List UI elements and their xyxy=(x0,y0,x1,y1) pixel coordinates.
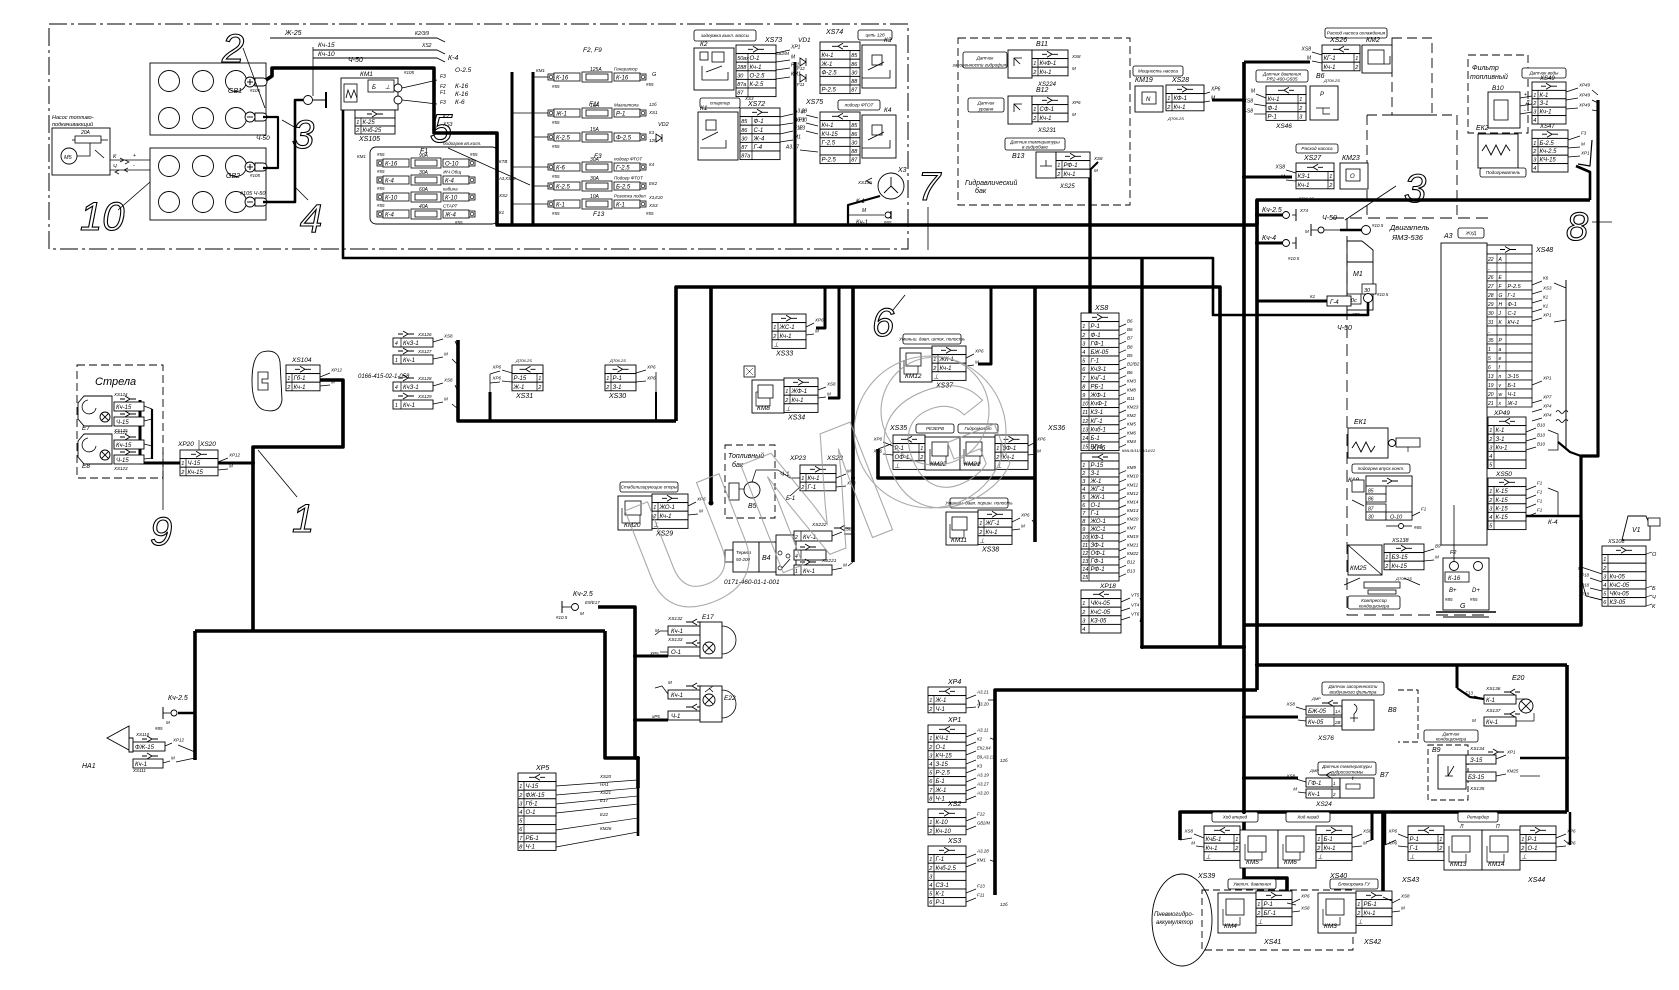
svg-text:1: 1 xyxy=(1355,56,1358,62)
svg-text:2: 2 xyxy=(928,866,932,872)
svg-text:ЖГ-1: ЖГ-1 xyxy=(1090,487,1105,493)
svg-text:ХР6: ХР6 xyxy=(491,365,501,370)
svg-text:30: 30 xyxy=(851,140,858,146)
svg-text:7: 7 xyxy=(918,165,942,209)
relay KM11 XS38 xyxy=(950,498,1008,508)
svg-text:А3.20: А3.20 xyxy=(976,791,989,796)
svg-text:О-2.5: О-2.5 xyxy=(750,73,766,79)
svg-text:Ч-15: Ч-15 xyxy=(526,784,539,790)
svg-text:СФ-1: СФ-1 xyxy=(1040,107,1054,113)
svg-text:М: М xyxy=(171,756,175,761)
svg-text:Ч: Ч xyxy=(1652,595,1656,601)
svg-text:Б-2.5: Б-2.5 xyxy=(1540,141,1555,147)
svg-text:288: 288 xyxy=(736,65,747,71)
svg-text:9: 9 xyxy=(150,510,172,554)
svg-text:Г-1: Г-1 xyxy=(936,857,945,863)
svg-text:КМ11: КМ11 xyxy=(1127,482,1139,487)
svg-text:ЧКч-05: ЧКч-05 xyxy=(1091,601,1111,607)
svg-text:XS2: XS2 xyxy=(498,193,508,198)
svg-text:n: n xyxy=(1499,374,1502,380)
svg-text:А3.19: А3.19 xyxy=(976,773,989,778)
svg-text:XS2: XS2 xyxy=(421,43,432,49)
svg-text:БЗ-15: БЗ-15 xyxy=(1392,555,1409,561)
svg-text:Г-4: Г-4 xyxy=(1330,300,1339,306)
svg-text:К-25: К-25 xyxy=(363,120,376,126)
svg-text:ХР6: ХР6 xyxy=(814,318,824,323)
wire drop x=711 KM20 feed xyxy=(709,287,713,503)
svg-text:#55: #55 xyxy=(470,152,478,157)
svg-text:Кч-1: Кч-1 xyxy=(1540,110,1552,116)
svg-text:Гидравлический: Гидравлический xyxy=(965,179,1017,187)
wire bus y=421 left xyxy=(458,340,676,421)
svg-text:X3,Е20: X3,Е20 xyxy=(648,195,663,200)
wire M1 K1 stub xyxy=(1257,300,1327,303)
svg-text:подогр ФТОТ: подогр ФТОТ xyxy=(614,157,643,162)
wire XS44 drop xyxy=(1569,812,1572,845)
svg-text:М: М xyxy=(815,329,819,334)
relay KM1 xyxy=(341,78,398,110)
svg-text:11: 11 xyxy=(1082,543,1088,549)
svg-text:Кч-2.5: Кч-2.5 xyxy=(1540,149,1558,155)
svg-text:КФ-1: КФ-1 xyxy=(1091,535,1105,541)
svg-text:кондиционера: кондиционера xyxy=(1359,604,1390,609)
relay KM8 XS34 xyxy=(752,380,784,413)
svg-text:XS25: XS25 xyxy=(1059,184,1075,190)
dashed box pneumo accumulator xyxy=(1202,890,1353,950)
svg-text:Кч-15: Кч-15 xyxy=(116,443,132,449)
svg-text:88: 88 xyxy=(851,149,858,155)
svg-text:Кч-05: Кч-05 xyxy=(1610,574,1626,580)
wire drop x=991 XS37 feed xyxy=(978,287,991,364)
svg-text:ЕК2,К4: ЕК2,К4 xyxy=(977,746,991,751)
svg-text:Блокировка ГУ: Блокировка ГУ xyxy=(1338,882,1371,887)
wire XS43 drop xyxy=(1384,812,1387,845)
svg-text:a: a xyxy=(1499,347,1502,353)
svg-text:4: 4 xyxy=(395,341,398,347)
svg-text:1: 1 xyxy=(1033,107,1036,113)
svg-text:XS39: XS39 xyxy=(1197,873,1215,880)
svg-text:VT4: VT4 xyxy=(1131,603,1140,608)
wire drop x=656 XS30 xyxy=(655,392,657,421)
svg-text:Кч-15: Кч-15 xyxy=(116,405,132,411)
svg-text:XS31: XS31 xyxy=(515,393,533,400)
connector XS33 xyxy=(772,314,806,323)
svg-text:⊥: ⊥ xyxy=(980,537,985,544)
svg-text:XS126: XS126 xyxy=(417,332,432,337)
svg-text:ЗФ-1: ЗФ-1 xyxy=(1091,543,1105,549)
svg-text:М1: М1 xyxy=(794,135,801,141)
svg-text:В8: В8 xyxy=(1127,344,1133,349)
svg-text:XS30: XS30 xyxy=(608,393,626,400)
svg-text:К-16: К-16 xyxy=(1448,576,1461,582)
relay KM25 xyxy=(1348,545,1382,575)
svg-text:КчГ-1: КчГ-1 xyxy=(1091,376,1106,382)
svg-text:КЧ-15: КЧ-15 xyxy=(1540,158,1557,164)
svg-text:1: 1 xyxy=(1533,93,1536,99)
svg-text:ХS8: ХS8 xyxy=(1071,54,1081,59)
svg-text:РБ-1: РБ-1 xyxy=(1364,902,1377,908)
svg-text:В10: В10 xyxy=(1537,433,1546,438)
svg-text:З-1: З-1 xyxy=(613,385,622,391)
dashed bracket B8 xyxy=(1398,690,1418,742)
svg-text:2: 2 xyxy=(1081,610,1085,616)
svg-text:А3.27: А3.27 xyxy=(785,145,799,151)
work lamp E8 xyxy=(78,434,112,464)
dashed box B9 xyxy=(1428,745,1468,800)
svg-text:#55: #55 xyxy=(377,186,385,191)
svg-text:БГ-1: БГ-1 xyxy=(1264,911,1277,917)
svg-text:2: 2 xyxy=(928,829,932,835)
svg-text:Г-1: Г-1 xyxy=(1091,511,1100,517)
wire KM1 to fuses xyxy=(402,80,437,88)
svg-text:1: 1 xyxy=(785,389,788,395)
svg-text:О-10: О-10 xyxy=(445,162,459,168)
svg-text:4: 4 xyxy=(1082,627,1085,633)
svg-text:Б-2.5: Б-2.5 xyxy=(616,185,631,191)
svg-text:ХР6: ХР6 xyxy=(1210,87,1221,93)
dashed box boom Стрела xyxy=(77,365,163,478)
svg-text:F1: F1 xyxy=(1421,507,1427,512)
svg-text:XS24: XS24 xyxy=(1315,801,1332,808)
svg-text:2В: 2В xyxy=(1334,720,1341,725)
svg-text:H: H xyxy=(1499,302,1503,308)
svg-text:..: .. xyxy=(1488,266,1491,272)
svg-text:ХР1: ХР1 xyxy=(1542,313,1552,318)
svg-text:В6: В6 xyxy=(1127,327,1133,332)
wire drop x=839 XS34 xyxy=(828,287,839,398)
svg-text:КМ5: КМ5 xyxy=(1246,859,1259,866)
svg-text:ХР1: ХР1 xyxy=(1580,151,1590,156)
svg-text:ЧКч-05: ЧКч-05 xyxy=(1610,592,1630,598)
XS49 callouts xyxy=(1566,88,1578,92)
svg-text:1: 1 xyxy=(1489,428,1492,434)
svg-text:5: 5 xyxy=(1488,356,1491,362)
svg-text:F13: F13 xyxy=(977,884,985,889)
svg-text:87: 87 xyxy=(737,91,744,97)
svg-text:З-15: З-15 xyxy=(1508,374,1520,380)
svg-text:86: 86 xyxy=(851,132,858,138)
svg-text:1: 1 xyxy=(1167,96,1170,102)
svg-text:Кч-1: Кч-1 xyxy=(1324,65,1336,71)
svg-text:Ч-15: Ч-15 xyxy=(116,458,129,464)
svg-text:КМ6: КМ6 xyxy=(1127,430,1136,435)
wire bus y=625 right xyxy=(1244,520,1581,625)
svg-text:21: 21 xyxy=(1487,401,1494,407)
svg-text:О-2.5: О-2.5 xyxy=(455,67,472,74)
XS3 callouts xyxy=(966,854,976,858)
svg-text:13: 13 xyxy=(1082,559,1089,565)
svg-text:2: 2 xyxy=(1332,792,1336,797)
wire drop x=490 XS31 xyxy=(489,392,492,421)
svg-text:Б-1: Б-1 xyxy=(1508,383,1516,389)
svg-text:1: 1 xyxy=(929,736,932,742)
svg-text:15А: 15А xyxy=(590,127,600,133)
svg-text:Р-15: Р-15 xyxy=(514,376,527,382)
watermark UMG xyxy=(602,335,1041,656)
label ход вперед xyxy=(1212,812,1258,822)
svg-text:Кч-1: Кч-1 xyxy=(1298,183,1310,189)
svg-text:ХР7: ХР7 xyxy=(1542,395,1552,400)
svg-text:М: М xyxy=(1581,142,1585,147)
svg-text:ДТ06-2S: ДТ06-2S xyxy=(1297,196,1314,201)
svg-text:Генератор: Генератор xyxy=(614,67,638,72)
svg-text:Кч-1: Кч-1 xyxy=(1308,792,1320,798)
svg-text:1: 1 xyxy=(181,461,184,467)
svg-text:Кч-1: Кч-1 xyxy=(1206,846,1218,852)
svg-text:К-1: К-1 xyxy=(616,203,625,209)
wire V2 vertical x=1257 xyxy=(1255,200,1259,690)
svg-text:КЗ-05: КЗ-05 xyxy=(1610,600,1627,606)
svg-text:#55: #55 xyxy=(455,220,463,225)
svg-text:К2: К2 xyxy=(700,41,708,48)
dashed box engine ЯМЗ-536 xyxy=(1332,217,1488,219)
fuse F1-1 xyxy=(377,160,383,166)
svg-text:⊥: ⊥ xyxy=(1410,853,1415,860)
svg-text:О-1: О-1 xyxy=(1091,503,1101,509)
svg-text:#55: #55 xyxy=(552,144,560,149)
svg-text:2: 2 xyxy=(1032,70,1036,76)
svg-text:ХР6: ХР6 xyxy=(1566,829,1576,834)
svg-text:Ч-1: Ч-1 xyxy=(1508,392,1517,398)
svg-text:30: 30 xyxy=(741,136,748,142)
svg-text:30: 30 xyxy=(1488,311,1494,317)
wire Ж-25 thin xyxy=(270,38,445,42)
svg-text:К-1: К-1 xyxy=(1540,93,1549,99)
svg-text:1: 1 xyxy=(1533,141,1536,147)
svg-text:цепь 12б: цепь 12б xyxy=(865,33,885,38)
svg-text:XS36: XS36 xyxy=(1047,425,1065,432)
svg-text:К1: К1 xyxy=(1543,295,1549,300)
svg-text:Насос топливо-: Насос топливо- xyxy=(52,115,94,121)
svg-text:ХР6: ХР6 xyxy=(1091,445,1105,452)
relay K2 xyxy=(694,48,734,90)
svg-text:Р-15: Р-15 xyxy=(1091,463,1104,469)
svg-text:Е8: Е8 xyxy=(82,463,90,470)
svg-text:Ход назад: Ход назад xyxy=(1296,815,1319,820)
wire XS26 feed corner xyxy=(1244,61,1310,64)
svg-text:Р-2.5: Р-2.5 xyxy=(1508,284,1522,290)
svg-text:VD1: VD1 xyxy=(798,37,811,44)
boom inner wire xyxy=(151,409,153,459)
svg-text:К-16: К-16 xyxy=(385,162,398,168)
svg-text:В+: В+ xyxy=(1449,588,1457,594)
svg-text:2: 2 xyxy=(1488,498,1492,504)
svg-text:2: 2 xyxy=(1532,149,1536,155)
label ретардер xyxy=(1458,812,1498,822)
svg-text:КчФ-1: КчФ-1 xyxy=(1040,61,1057,67)
svg-text:КчС-05: КчС-05 xyxy=(1091,610,1111,616)
svg-text:КМ20: КМ20 xyxy=(1127,517,1139,522)
svg-text:КМ2: КМ2 xyxy=(1127,413,1136,418)
svg-text:Е7: Е7 xyxy=(82,425,90,432)
svg-text:Р-1: Р-1 xyxy=(1091,324,1100,330)
svg-text:Р-2.5: Р-2.5 xyxy=(822,88,837,94)
svg-text:Кч-1: Кч-1 xyxy=(750,65,762,71)
svg-text:С-1: С-1 xyxy=(1508,311,1517,317)
svg-text:87: 87 xyxy=(851,88,858,94)
svg-text:12: 12 xyxy=(1082,419,1088,425)
pneumo accumulator ellipse xyxy=(1152,874,1212,966)
svg-text:87а: 87а xyxy=(737,82,746,88)
XS48 callouts lower xyxy=(1532,381,1542,385)
svg-text:GB2/М: GB2/М xyxy=(775,51,789,56)
svg-text:КМ25: КМ25 xyxy=(1350,565,1367,572)
svg-text:ГФ-1: ГФ-1 xyxy=(1091,559,1104,565)
svg-text:P: P xyxy=(1320,92,1324,98)
svg-text:КМ23: КМ23 xyxy=(1342,155,1360,162)
svg-text:Кч-15: Кч-15 xyxy=(188,470,204,476)
svg-text:ХР4: ХР4 xyxy=(1542,404,1552,409)
svg-text:Кч-1: Кч-1 xyxy=(1040,70,1052,76)
svg-text:В12: В12 xyxy=(1036,87,1049,94)
svg-text:1: 1 xyxy=(287,376,290,382)
svg-text:Ч-1: Ч-1 xyxy=(671,714,680,720)
svg-text:⊥: ⊥ xyxy=(1258,918,1263,925)
svg-text:9: 9 xyxy=(1082,527,1085,533)
svg-text:+: + xyxy=(133,153,136,159)
svg-text:К-16: К-16 xyxy=(455,91,469,98)
svg-text:К-16: К-16 xyxy=(616,76,629,82)
svg-text:#10.5: #10.5 xyxy=(1377,292,1389,297)
wire heater feed up from bus y200 xyxy=(1576,166,1590,200)
svg-text:В2/В2: В2/В2 xyxy=(1127,362,1140,367)
svg-text:XS73: XS73 xyxy=(764,37,782,44)
svg-text:А3.21: А3.21 xyxy=(976,690,989,695)
svg-text:ХР6: ХР6 xyxy=(1071,100,1081,105)
fuel pump fuse 20A xyxy=(75,136,101,143)
svg-text:Б: Б xyxy=(372,85,376,91)
svg-text:XS138: XS138 xyxy=(1391,538,1409,544)
connector XS40 xyxy=(1316,826,1352,835)
svg-text:2: 2 xyxy=(1384,564,1388,570)
svg-text:КМ6: КМ6 xyxy=(1284,859,1297,866)
svg-text:2: 2 xyxy=(1532,101,1536,107)
wire Kch-25 stub to E22/XP5 vertical xyxy=(598,607,638,788)
svg-text:F11: F11 xyxy=(797,82,805,87)
svg-text:О-10: О-10 xyxy=(1390,515,1403,521)
svg-text:XS28: XS28 xyxy=(1171,77,1189,84)
svg-text:2: 2 xyxy=(928,745,932,751)
svg-text:В10: В10 xyxy=(1537,442,1546,447)
horn HA1 xyxy=(107,726,133,752)
svg-text:2: 2 xyxy=(928,707,932,713)
svg-text:Л: Л xyxy=(1459,824,1464,830)
svg-text:XS20: XS20 xyxy=(199,441,216,448)
svg-text:ХР6: ХР6 xyxy=(646,365,656,370)
svg-text:ОФ-1: ОФ-1 xyxy=(1091,551,1106,557)
svg-text:Ф-1: Ф-1 xyxy=(1091,333,1101,339)
svg-text:2: 2 xyxy=(537,385,541,391)
wire relay column feed xyxy=(794,62,797,225)
svg-text:Р-1: Р-1 xyxy=(1528,837,1537,843)
svg-text:ХS8: ХS8 xyxy=(826,382,836,387)
svg-text:#55: #55 xyxy=(1352,312,1360,317)
svg-text:XS3: XS3 xyxy=(1542,286,1552,291)
svg-text:V1: V1 xyxy=(1632,527,1641,534)
wire drop x=1035 and bus y=478 KM22 group xyxy=(1033,287,1037,542)
svg-text:#65: #65 xyxy=(1414,525,1422,530)
svg-text:М: М xyxy=(1191,841,1195,846)
XS2 callouts xyxy=(966,817,976,821)
svg-text:XS127: XS127 xyxy=(417,349,432,354)
svg-text:F1: F1 xyxy=(1537,490,1543,495)
svg-text:БЖ-05: БЖ-05 xyxy=(1308,709,1327,715)
svg-text:М: М xyxy=(668,680,672,685)
svg-text:GB1: GB1 xyxy=(228,88,242,95)
svg-text:К1: К1 xyxy=(1310,294,1316,299)
svg-text:К1: К1 xyxy=(700,105,708,112)
svg-text:Кч-1: Кч-1 xyxy=(822,123,834,129)
svg-text:⊥: ⊥ xyxy=(385,84,390,91)
wire drop x=853 B4/B5 feed xyxy=(851,287,855,562)
svg-text:F3: F3 xyxy=(440,100,446,106)
svg-text:#55: #55 xyxy=(552,174,560,179)
svg-text:КчС-05: КчС-05 xyxy=(1610,583,1630,589)
wire V1 main vertical x=1244 xyxy=(1242,62,1246,812)
svg-text:М: М xyxy=(1472,718,1476,723)
svg-text:ХР49: ХР49 xyxy=(1493,410,1510,417)
air filter sensor B8 xyxy=(1322,682,1384,695)
svg-text:Кч-1: Кч-1 xyxy=(1268,97,1280,103)
svg-text:Ч-1: Ч-1 xyxy=(526,844,535,850)
svg-text:#55: #55 xyxy=(377,169,385,174)
svg-text:ХР6: ХР6 xyxy=(491,376,501,381)
K18 ground xyxy=(1386,525,1398,527)
relay KM21 xyxy=(960,437,995,470)
wire E22 stub xyxy=(635,719,668,722)
svg-text:К-10: К-10 xyxy=(936,820,949,826)
wire bus y=200 right section xyxy=(1257,200,1590,225)
svg-text:ЖС-1: ЖС-1 xyxy=(1090,527,1106,533)
svg-text:XS105: XS105 xyxy=(358,136,380,143)
svg-text:ДТ06-2S: ДТ06-2S xyxy=(1167,116,1184,121)
svg-text:VT6: VT6 xyxy=(1131,612,1140,617)
svg-text:12б: 12б xyxy=(1000,758,1008,763)
svg-text:10: 10 xyxy=(80,195,125,239)
svg-text:XS26: XS26 xyxy=(1329,37,1347,44)
AC sensor B9 xyxy=(1424,730,1478,742)
svg-text:..: .. xyxy=(1488,329,1491,335)
svg-text:85: 85 xyxy=(851,53,858,59)
svg-text:1: 1 xyxy=(356,120,359,126)
svg-text:Кч-1: Кч-1 xyxy=(1064,172,1076,178)
svg-text:10: 10 xyxy=(1082,535,1089,541)
relay KM12 XS37 xyxy=(903,334,961,344)
svg-text:З-15: З-15 xyxy=(1470,758,1483,764)
wire pump K xyxy=(110,159,150,161)
wire left harness XS104 junction xyxy=(253,380,343,631)
svg-text:ХР1: ХР1 xyxy=(1542,376,1552,381)
svg-text:Р-2.5: Р-2.5 xyxy=(936,771,951,777)
glow plug relay K18 xyxy=(1352,464,1410,473)
wire right vertical x=1598 xyxy=(1581,100,1598,520)
svg-text:ХS20: ХS20 xyxy=(599,774,612,779)
svg-text:XS104: XS104 xyxy=(291,357,312,364)
svg-text:Стрела: Стрела xyxy=(95,376,136,388)
wire KM4 branch from V1 xyxy=(1244,812,1287,903)
XP5 callouts xyxy=(637,758,640,836)
svg-text:XS44: XS44 xyxy=(1527,877,1545,884)
svg-text:2: 2 xyxy=(1602,566,1606,572)
svg-text:Кч-1: Кч-1 xyxy=(1174,105,1186,111)
svg-text:VT5: VT5 xyxy=(1131,593,1140,598)
svg-text:⊥: ⊥ xyxy=(1318,853,1323,860)
svg-text:Кч-1: Кч-1 xyxy=(1364,911,1376,917)
wire Kch-4 stub engine xyxy=(1257,242,1283,245)
svg-text:XS108: XS108 xyxy=(1607,539,1625,545)
XP4 callouts xyxy=(966,695,976,699)
svg-text:В11: В11 xyxy=(1127,396,1135,401)
